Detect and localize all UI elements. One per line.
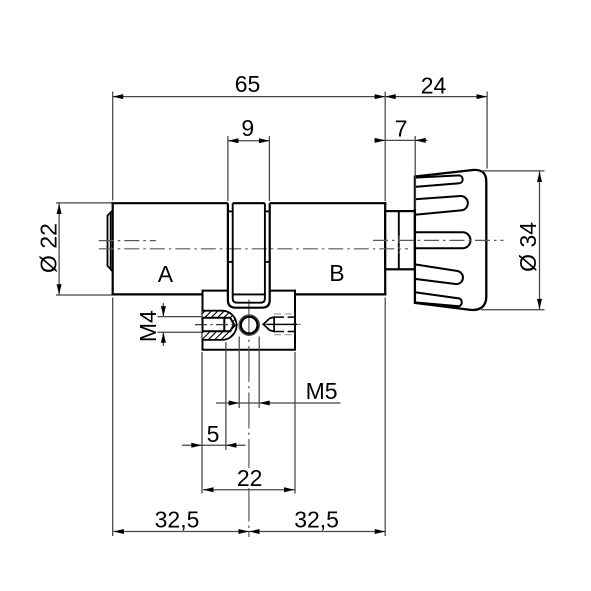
clip outer U <box>228 203 270 308</box>
clip tick lower right <box>265 261 270 263</box>
svg-text:Ø 22: Ø 22 <box>36 223 62 273</box>
right hole axis black segment <box>267 323 298 325</box>
cylinder bottom edge <box>112 293 387 295</box>
extension line x=225.9 (5) <box>225 342 227 450</box>
clip tick upper left <box>228 210 233 212</box>
knob slot 4 <box>415 264 463 284</box>
dimension line M4 arrows tails <box>162 303 164 346</box>
dimension line 7 <box>374 139 428 141</box>
arrow M5 right (outside pointing left) <box>259 401 270 406</box>
knob outline <box>415 170 486 310</box>
M5 hole inner circle <box>241 317 258 334</box>
block right edge <box>294 290 296 350</box>
svg-text:32,5: 32,5 <box>294 506 339 532</box>
extension line x=269.4 (9) <box>268 136 270 201</box>
extension line Ø22 bottom <box>56 294 112 296</box>
svg-text:24: 24 <box>421 73 447 99</box>
right-side threaded hole (side view) <box>263 314 297 335</box>
knob slot 2 <box>415 196 468 215</box>
centerline knob axis left segment <box>99 240 156 242</box>
block left edge <box>202 290 204 350</box>
arrow 32,5 left inner <box>239 529 250 534</box>
M4 hatching <box>175 310 265 342</box>
dimension line M5 leader <box>216 402 341 404</box>
dimension line 32,5 left and right <box>113 531 385 533</box>
svg-text:5: 5 <box>207 421 220 447</box>
extension line x=385.2 bottom (32,5) <box>384 298 386 537</box>
arrow O22 top <box>57 204 62 215</box>
svg-text:M5: M5 <box>306 378 338 404</box>
arrow 7 right (outside) <box>415 138 426 143</box>
extension line Ø34 bottom <box>481 309 545 311</box>
M4 tapped hole bore <box>203 318 235 332</box>
svg-text:A: A <box>158 261 174 287</box>
svg-text:32,5: 32,5 <box>155 506 200 532</box>
arrow 22 right <box>284 487 295 492</box>
extension line M4 lower leader <box>158 331 203 333</box>
arrow 65 right <box>375 94 386 99</box>
extension line x=112.7 top (65) <box>112 92 114 201</box>
svg-text:M4: M4 <box>135 310 161 342</box>
centerline M4 hole axis <box>195 324 238 326</box>
right hole drill cone <box>263 317 274 331</box>
dimension line Ø34 <box>539 172 541 310</box>
arrow O22 bottom <box>57 284 62 295</box>
arrow 65 left <box>113 94 124 99</box>
extension line Ø34 top <box>481 170 545 172</box>
neck divider <box>398 211 400 269</box>
centerline knob axis right segment <box>373 239 504 241</box>
extension line Ø22 top <box>56 202 112 204</box>
M4 thread depth step <box>223 318 225 332</box>
clip tick lower left <box>228 261 233 263</box>
arrow 24 right <box>477 94 488 99</box>
knob slot 5 <box>415 292 462 306</box>
svg-text:B: B <box>329 260 344 286</box>
svg-text:9: 9 <box>241 115 254 141</box>
right hole thread crest dashed lines <box>274 314 295 335</box>
cylinder body fill <box>113 203 386 294</box>
cylinder left edge <box>112 202 114 295</box>
dimension line 65 <box>113 96 386 98</box>
label 22 background knockout <box>236 468 263 488</box>
M4 threaded hole (sectioned, hatched) <box>175 310 265 342</box>
dimension line 5 <box>182 444 246 446</box>
extension line x=385.2 top (65/24) <box>384 92 386 202</box>
arrow 9 left <box>228 138 239 143</box>
arrow O34 bottom <box>537 299 542 310</box>
knob slot 3 <box>415 232 471 248</box>
clip tick upper right <box>265 210 270 212</box>
arrow 7 left (outside) <box>375 138 386 143</box>
centerline right hole axis <box>262 323 304 325</box>
arrow 32,5 right outer <box>375 529 386 534</box>
cylinder left end cap <box>108 211 113 272</box>
svg-text:65: 65 <box>235 71 261 97</box>
extension line x=227.9 (9) <box>227 136 229 201</box>
svg-text:7: 7 <box>395 116 408 142</box>
arrow 24 left <box>385 94 396 99</box>
arrow 9 right <box>259 138 270 143</box>
dimension line 24 <box>385 96 487 98</box>
centerline cylinder axis <box>99 236 504 538</box>
dimension line Ø22 <box>58 204 60 295</box>
neck outline <box>385 211 415 269</box>
block top edge <box>203 290 296 292</box>
svg-text:Ø 34: Ø 34 <box>515 222 541 272</box>
arrow 32,5 left outer <box>113 529 124 534</box>
extension line x=295 block right (22) <box>294 352 296 494</box>
cylinder right edge <box>384 202 386 295</box>
clip inner U <box>233 203 265 303</box>
cylinder top edge <box>112 202 387 204</box>
knob slot 1 <box>415 175 463 187</box>
block bottom edge <box>202 349 297 351</box>
extension line x=202 block left (5 and 22) <box>201 352 203 494</box>
arrow M4 bottom (outside pointing up) <box>161 332 166 343</box>
extension line x=112.7 bottom (32,5) <box>112 298 114 537</box>
arrow M5 left (outside pointing right) <box>229 401 240 406</box>
dimension line 22 <box>203 489 295 491</box>
extension line x=415.2 (7) <box>414 136 416 209</box>
extension line x=259.2 (M5 right tangent) <box>258 337 260 409</box>
cylinder bottom edge through clip <box>233 293 265 295</box>
extension line x=487.1 (24) <box>486 92 488 169</box>
right hole core lines <box>274 317 295 331</box>
M4 hatched boss outline <box>203 311 237 340</box>
M5 hole outer thread circle <box>239 315 259 335</box>
extension line x=239.2 (M5 left tangent) <box>238 337 240 409</box>
M5 hole (plan circle) <box>239 315 259 335</box>
arrow O34 top <box>537 172 542 183</box>
arrow M4 top (outside pointing down) <box>161 306 166 317</box>
arrow 5 left (outside pointing right) <box>191 443 202 448</box>
block fill <box>203 291 296 350</box>
svg-text:22: 22 <box>237 465 263 491</box>
extension line M4 upper leader <box>158 316 203 318</box>
cylinder left end cap inner line <box>110 213 112 269</box>
centerline neck vertical cross <box>398 236 400 254</box>
arrow 32,5 right inner <box>249 529 260 534</box>
arrow 5 right (outside pointing left) <box>226 443 237 448</box>
arrow 22 left <box>203 487 214 492</box>
centerline M5 hole vertical <box>248 300 250 538</box>
dimension line 9 <box>228 140 270 142</box>
